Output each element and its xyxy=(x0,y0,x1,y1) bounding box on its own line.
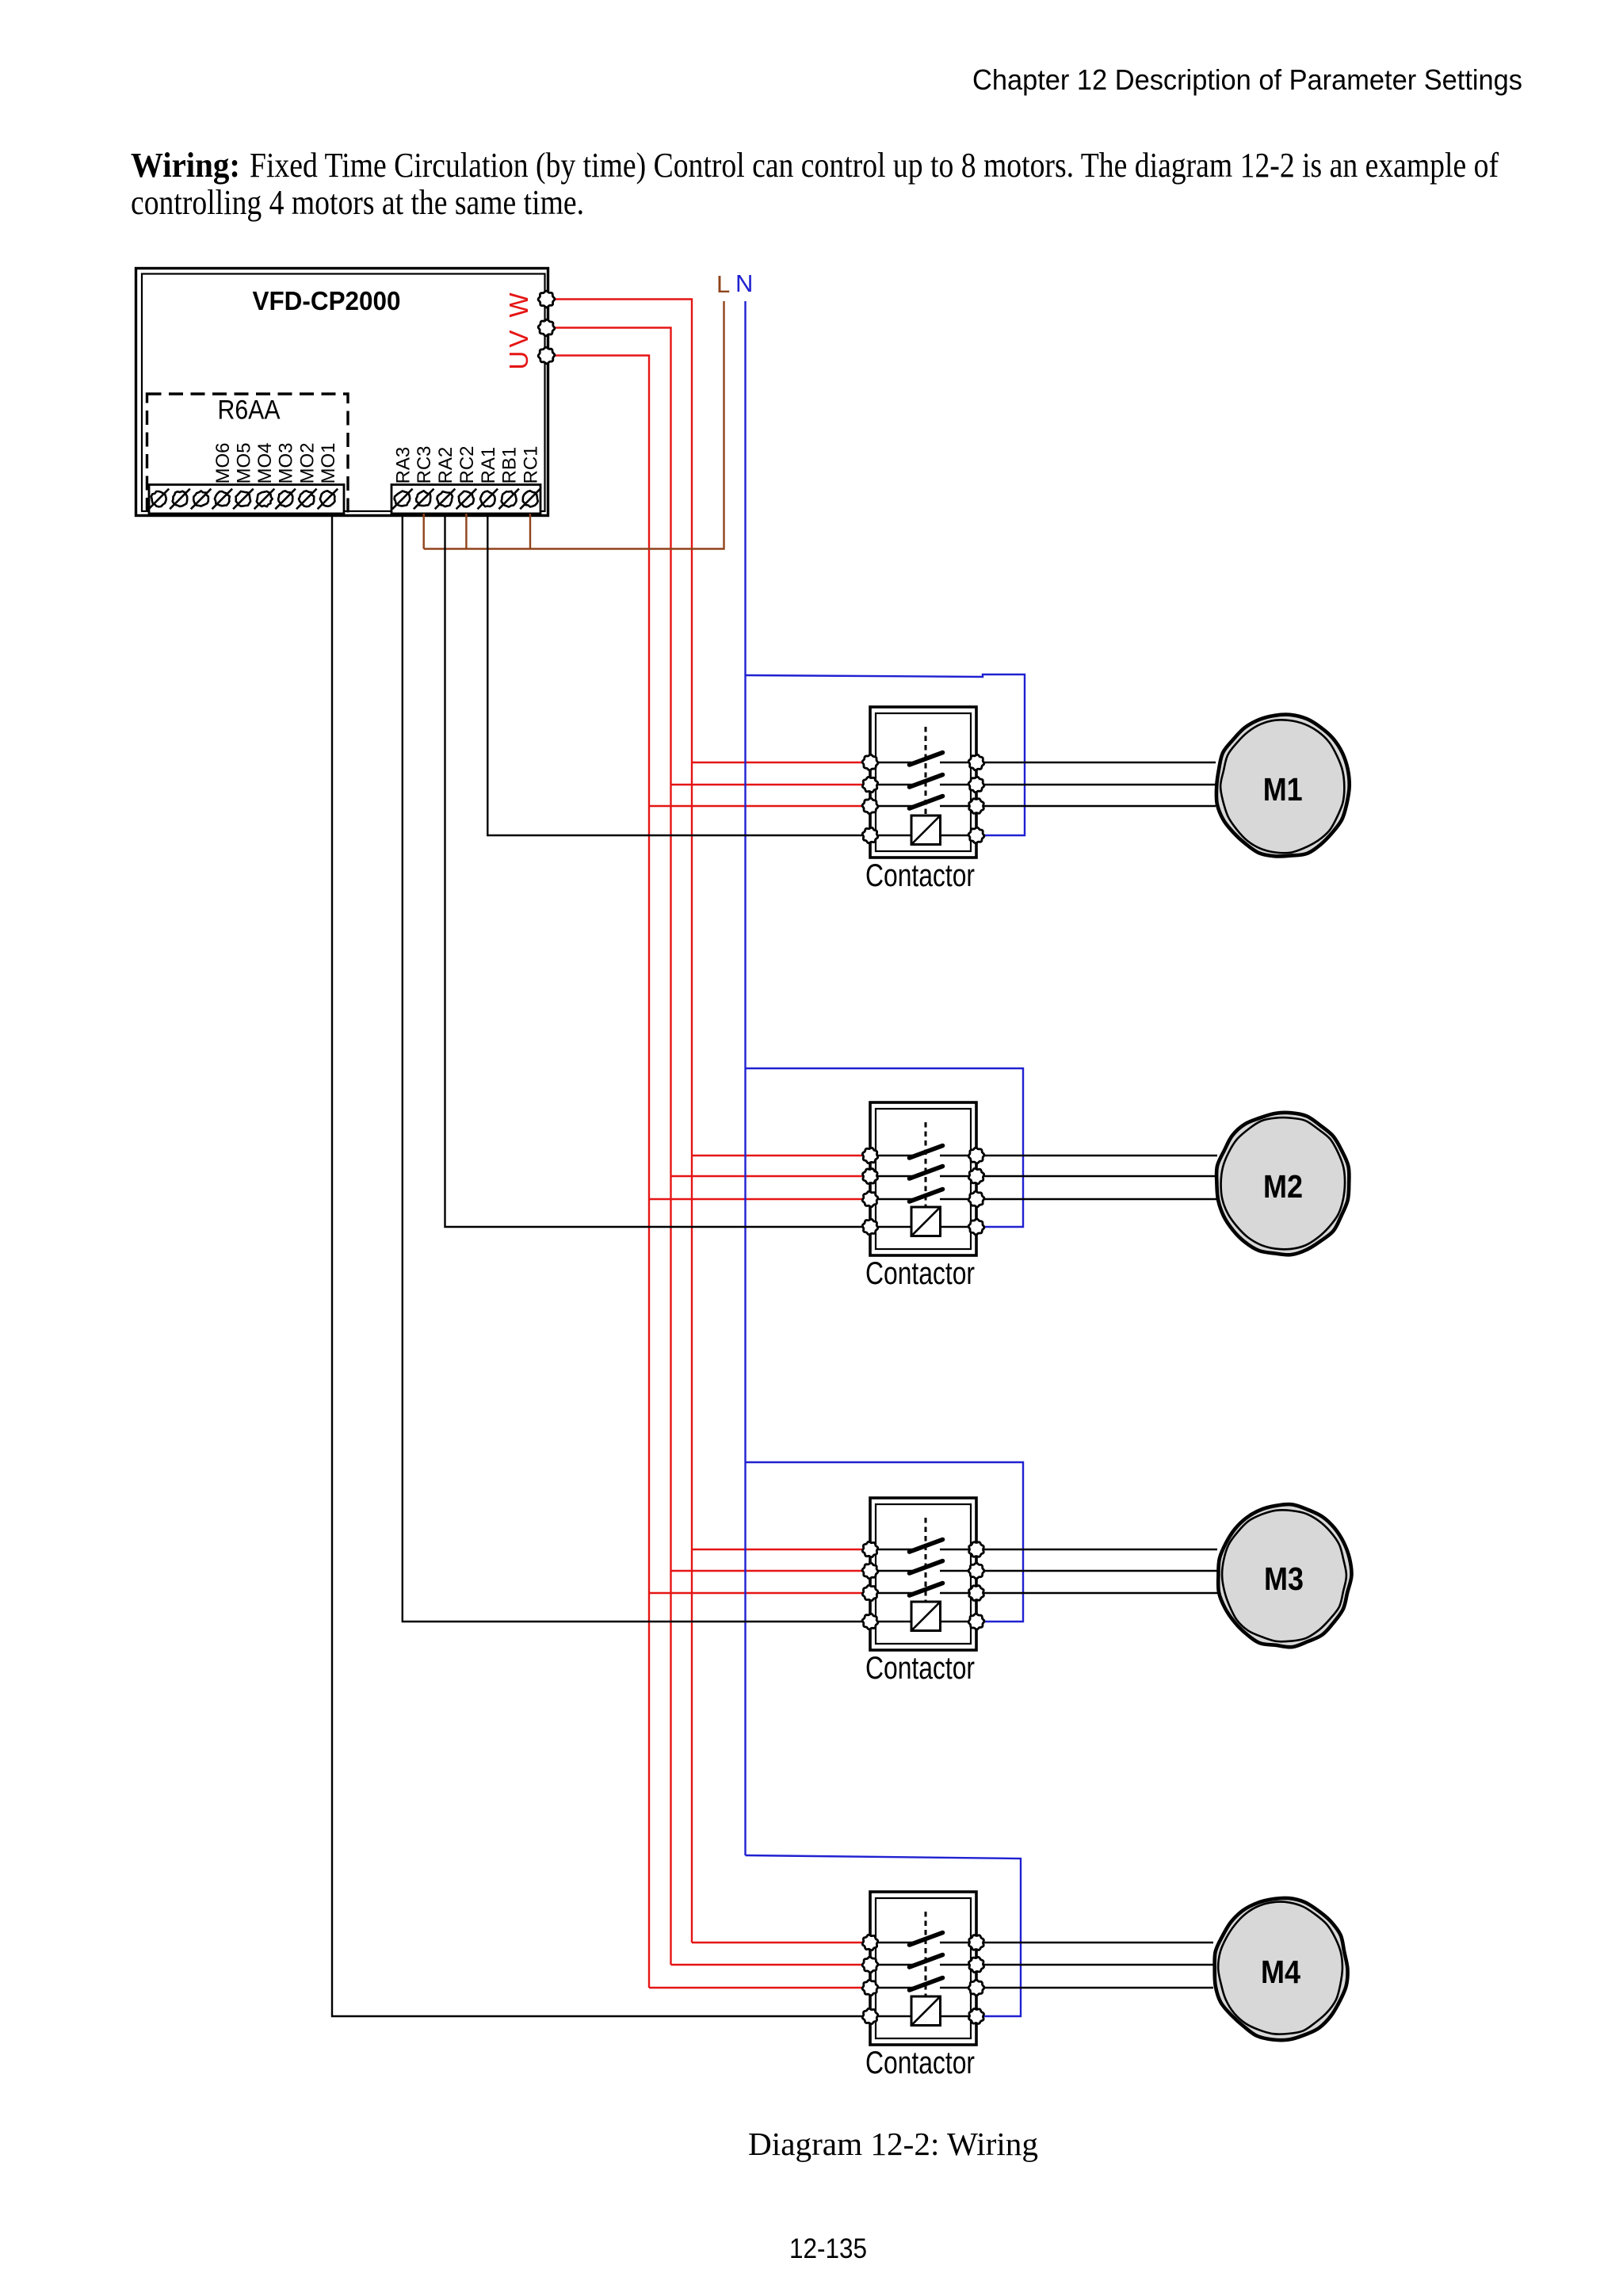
wire N branch to contactor 4 coil xyxy=(746,1855,1022,2016)
contactor K4 coil (box with diagonal) xyxy=(911,1996,941,2026)
contactor K4 outer box xyxy=(870,1892,976,2045)
contactor K3 coil leads xyxy=(870,1621,911,1622)
wire contactor 3 output 1 to motor M3 xyxy=(976,1549,1217,1550)
wire L (brown) vertical drop xyxy=(424,301,724,549)
svg-text:RA3: RA3 xyxy=(392,447,414,484)
svg-text:MO3: MO3 xyxy=(276,442,297,483)
motor M3 inner ring xyxy=(1222,1510,1346,1641)
svg-text:RC1: RC1 xyxy=(521,445,542,483)
contactor K2 right terminal 2 xyxy=(968,1168,983,1183)
contactor K2 inner box xyxy=(876,1109,971,1249)
svg-text:RC2: RC2 xyxy=(456,445,478,483)
drive output terminal U xyxy=(538,347,555,364)
screw terminal MO strip #4 xyxy=(215,491,230,506)
svg-text:MO1: MO1 xyxy=(318,442,339,483)
svg-text:MO2: MO2 xyxy=(296,442,318,483)
contactor K4 pole 3 blade xyxy=(910,1978,943,1991)
contactor K2 pole 1 fixed leads xyxy=(870,1155,918,1156)
wire N branch to contactor 2 coil xyxy=(746,1068,1024,1227)
contactor K3 right terminal 1 xyxy=(969,1542,984,1557)
motor M1 outer ring xyxy=(1216,715,1350,857)
contactor K3 inner box xyxy=(876,1504,971,1644)
wire phase V from drive terminal, vertical bus x=846 xyxy=(547,328,671,1966)
contactor K2 right terminal 4 xyxy=(968,1219,984,1235)
wire control RA3 to contactor 3 coil xyxy=(403,514,870,1622)
wire N branch to contactor 1 coil xyxy=(746,674,1025,835)
contactor K3 pole 1 fixed leads xyxy=(870,1549,918,1550)
motor M2 outer ring xyxy=(1216,1113,1349,1255)
wire phase V branch to contactor 4 xyxy=(671,1964,871,1966)
motor M3 outer ring xyxy=(1218,1504,1351,1647)
contactor K4 actuator dashed link xyxy=(925,1912,927,1999)
screw terminal RB1 xyxy=(502,491,517,507)
wire phase W branch to contactor 3 xyxy=(692,1549,870,1550)
svg-text:Contactor: Contactor xyxy=(865,1256,975,1291)
contactor K2 pole 3 blade xyxy=(910,1190,943,1202)
wire N (blue) vertical bus xyxy=(744,301,746,1855)
motor M4 outer ring xyxy=(1215,1898,1348,2040)
relay output terminal strip xyxy=(391,485,540,514)
contactor K4 left terminal 3 xyxy=(862,1980,878,1996)
svg-text:M2: M2 xyxy=(1263,1168,1303,1205)
screw terminal MO strip #7 xyxy=(278,491,292,506)
drive output terminal W xyxy=(538,291,555,308)
contactor K3 left terminal 2 xyxy=(862,1563,878,1579)
contactor K4 right terminal 4 xyxy=(969,2009,984,2024)
svg-text:VFD-CP2000: VFD-CP2000 xyxy=(253,286,401,315)
screw terminal RA2 xyxy=(437,491,453,506)
contactor K4 coil leads xyxy=(870,2015,911,2017)
svg-text:Chapter 12 Description of Para: Chapter 12 Description of Parameter Sett… xyxy=(972,63,1522,96)
screw terminal MO strip #3 xyxy=(193,491,208,506)
svg-text:Contactor: Contactor xyxy=(865,2046,975,2080)
wire contactor 4 output 2 to motor M4 xyxy=(976,1964,1213,1966)
svg-text:N: N xyxy=(735,269,753,297)
MO relay-card terminal strip xyxy=(149,485,344,514)
contactor K3 left terminal 4 xyxy=(862,1614,878,1629)
contactor K1 right terminal 4 xyxy=(968,827,984,843)
wire control RA1 to contactor 1 coil xyxy=(487,514,870,835)
contactor K1 coil leads xyxy=(870,835,911,836)
svg-text:M4: M4 xyxy=(1261,1954,1300,1990)
screw terminal MO strip #9 xyxy=(320,491,335,506)
svg-text:RB1: RB1 xyxy=(499,447,521,484)
wire brown drop to RC2 xyxy=(465,514,467,549)
contactor K2 right terminal 1 xyxy=(968,1148,984,1163)
contactor K2 left terminal 3 xyxy=(862,1191,878,1207)
contactor K1 right terminal 3 xyxy=(969,799,984,814)
svg-text:M3: M3 xyxy=(1264,1561,1304,1597)
svg-text:M1: M1 xyxy=(1263,771,1303,808)
svg-text:controlling 4 motors at the sa: controlling 4 motors at the same time. xyxy=(131,183,584,222)
relay option card R6AA dashed box xyxy=(147,394,349,514)
wire contactor 1 output 1 to motor M1 xyxy=(976,762,1216,763)
contactor K3 pole 2 fixed leads xyxy=(870,1570,918,1572)
contactor K3 right terminal 2 xyxy=(968,1563,984,1579)
wire phase W from drive terminal, vertical bus x=873 xyxy=(547,300,693,1943)
contactor K4 pole 2 fixed leads xyxy=(870,1964,918,1966)
VFD-CP2000 drive U1 inner box xyxy=(142,274,545,512)
screw terminal MO strip #8 xyxy=(299,491,314,506)
contactor K3 pole 1 blade xyxy=(910,1540,943,1553)
contactor K2 pole 2 fixed leads xyxy=(870,1175,918,1177)
screw terminal MO strip #6 xyxy=(257,491,273,506)
contactor K2 left terminal 4 xyxy=(862,1219,878,1235)
wire contactor 2 output 1 to motor M2 xyxy=(976,1155,1217,1156)
contactor K3 pole 3 blade xyxy=(910,1584,943,1596)
wire phase V branch to contactor 3 xyxy=(671,1570,871,1572)
contactor K1 pole 1 blade xyxy=(910,753,943,766)
svg-text:MO5: MO5 xyxy=(233,442,254,483)
wire phase U branch to contactor 1 xyxy=(649,805,870,807)
contactor K2 outer box xyxy=(870,1102,976,1255)
screw terminal RC2 xyxy=(459,491,474,507)
contactor K4 pole 2 blade xyxy=(910,1955,943,1968)
svg-text:RA1: RA1 xyxy=(478,447,499,484)
contactor K2 pole 1 blade xyxy=(910,1146,943,1159)
contactor K2 coil leads xyxy=(870,1226,911,1228)
contactor K3 actuator dashed link xyxy=(925,1518,927,1604)
svg-text:MO6: MO6 xyxy=(212,442,234,483)
wire phase V branch to contactor 2 xyxy=(671,1175,871,1177)
wire N branch to contactor 3 coil xyxy=(746,1462,1024,1622)
motor M4 inner ring xyxy=(1218,1902,1342,2034)
svg-text:RA2: RA2 xyxy=(435,447,456,484)
screw terminal MO strip #1 xyxy=(151,491,166,506)
contactor K4 inner box xyxy=(876,1898,971,2038)
contactor K4 left terminal 1 xyxy=(862,1935,877,1950)
svg-text:L: L xyxy=(716,270,730,298)
contactor K1 right terminal 1 xyxy=(968,755,984,770)
wire contactor 3 output 2 to motor M3 xyxy=(976,1570,1217,1572)
contactor K4 pole 1 blade xyxy=(910,1933,943,1946)
contactor K3 right terminal 3 xyxy=(969,1586,984,1601)
svg-text:12-135: 12-135 xyxy=(789,2233,867,2264)
contactor K1 pole 2 fixed leads xyxy=(870,784,918,785)
svg-text:MO4: MO4 xyxy=(254,442,276,483)
svg-text:Contactor: Contactor xyxy=(865,1651,975,1686)
wire brown drop to RC1 xyxy=(529,514,531,549)
wire contactor 1 output 3 to motor M1 xyxy=(976,805,1216,807)
contactor K1 outer box xyxy=(870,707,976,858)
contactor K1 actuator dashed link xyxy=(925,727,927,818)
contactor K1 right terminal 2 xyxy=(968,777,984,793)
contactor K2 right terminal 3 xyxy=(968,1191,984,1207)
VFD-CP2000 drive U1 outer box xyxy=(136,269,548,516)
contactor K3 pole 2 blade xyxy=(910,1561,943,1574)
screw terminal RC1 xyxy=(523,491,538,506)
contactor K1 pole 1 fixed leads xyxy=(870,762,918,763)
contactor K3 coil (box with diagonal) xyxy=(911,1602,941,1631)
wire phase W branch to contactor 4 xyxy=(692,1942,870,1943)
svg-text:W: W xyxy=(504,292,533,318)
svg-text:Wiring:: Wiring: xyxy=(131,146,240,185)
contactor K1 pole 2 blade xyxy=(910,775,943,788)
svg-text:R6AA: R6AA xyxy=(218,395,281,426)
contactor K4 right terminal 3 xyxy=(968,1980,984,1996)
wire phase U branch to contactor 4 xyxy=(649,1987,870,1988)
screw terminal MO strip #2 xyxy=(173,491,188,506)
wire phase U branch to contactor 2 xyxy=(649,1198,870,1200)
contactor K2 left terminal 2 xyxy=(863,1169,878,1184)
svg-text:U: U xyxy=(504,351,533,370)
svg-text:Fixed Time Circulation (by tim: Fixed Time Circulation (by time) Control… xyxy=(250,146,1499,185)
motor M1 inner ring xyxy=(1220,720,1344,853)
wire phase U from drive terminal, vertical bus x=819 xyxy=(547,356,650,1988)
wire contactor 4 output 3 to motor M4 xyxy=(976,1987,1213,1988)
contactor K4 right terminal 1 xyxy=(969,1935,984,1950)
contactor K3 right terminal 4 xyxy=(968,1614,984,1629)
contactor K1 left terminal 2 xyxy=(862,777,877,792)
contactor K4 left terminal 4 xyxy=(862,2008,878,2024)
wire contactor 4 output 1 to motor M4 xyxy=(976,1942,1213,1943)
contactor K3 left terminal 3 xyxy=(862,1585,877,1600)
wire phase V branch to contactor 1 xyxy=(671,784,871,785)
contactor K1 left terminal 4 xyxy=(862,827,877,842)
contactor K1 left terminal 1 xyxy=(862,755,878,770)
svg-text:V: V xyxy=(504,330,533,347)
wire phase W branch to contactor 2 xyxy=(692,1155,870,1156)
contactor K4 pole 3 fixed leads xyxy=(870,1987,918,1988)
svg-text:Diagram 12-2: Wiring: Diagram 12-2: Wiring xyxy=(748,2126,1038,2162)
contactor K2 pole 3 fixed leads xyxy=(870,1198,918,1200)
contactor K4 pole 1 fixed leads xyxy=(870,1942,918,1943)
contactor K4 right terminal 2 xyxy=(968,1957,983,1972)
wire control MO1 to contactor 4 coil xyxy=(332,514,870,2016)
contactor K1 pole 3 fixed leads xyxy=(870,805,918,807)
screw terminal RA3 xyxy=(395,491,411,506)
screw terminal RA1 xyxy=(480,491,495,506)
screw terminal RC3 xyxy=(416,491,430,506)
wire phase U branch to contactor 3 xyxy=(649,1592,870,1594)
contactor K2 left terminal 1 xyxy=(862,1148,877,1163)
wire contactor 2 output 2 to motor M2 xyxy=(976,1175,1217,1177)
wire contactor 2 output 3 to motor M2 xyxy=(976,1198,1217,1200)
contactor K2 coil (box with diagonal) xyxy=(911,1207,941,1236)
screw terminal MO strip #5 xyxy=(236,491,251,506)
wire contactor 1 output 2 to motor M1 xyxy=(976,784,1216,785)
wire control RA2 to contactor 2 coil xyxy=(445,514,871,1227)
contactor K2 pole 2 blade xyxy=(910,1167,943,1179)
drive output terminal V xyxy=(538,319,555,336)
contactor K1 inner box xyxy=(876,713,971,851)
svg-text:Contactor: Contactor xyxy=(865,858,975,893)
contactor K1 pole 3 blade xyxy=(910,797,943,809)
contactor K2 actuator dashed link xyxy=(925,1122,927,1209)
wire phase W branch to contactor 1 xyxy=(692,762,870,763)
contactor K1 coil (box with diagonal) xyxy=(911,816,941,845)
contactor K4 left terminal 2 xyxy=(862,1957,878,1973)
contactor K3 left terminal 1 xyxy=(862,1541,877,1557)
wire contactor 3 output 3 to motor M3 xyxy=(976,1592,1217,1594)
motor M2 inner ring xyxy=(1221,1117,1345,1249)
contactor K3 pole 3 fixed leads xyxy=(870,1592,918,1594)
wire brown drop to RC3 xyxy=(423,514,425,549)
contactor K1 left terminal 3 xyxy=(862,798,878,814)
contactor K3 outer box xyxy=(870,1498,976,1650)
svg-text:RC3: RC3 xyxy=(414,445,435,483)
